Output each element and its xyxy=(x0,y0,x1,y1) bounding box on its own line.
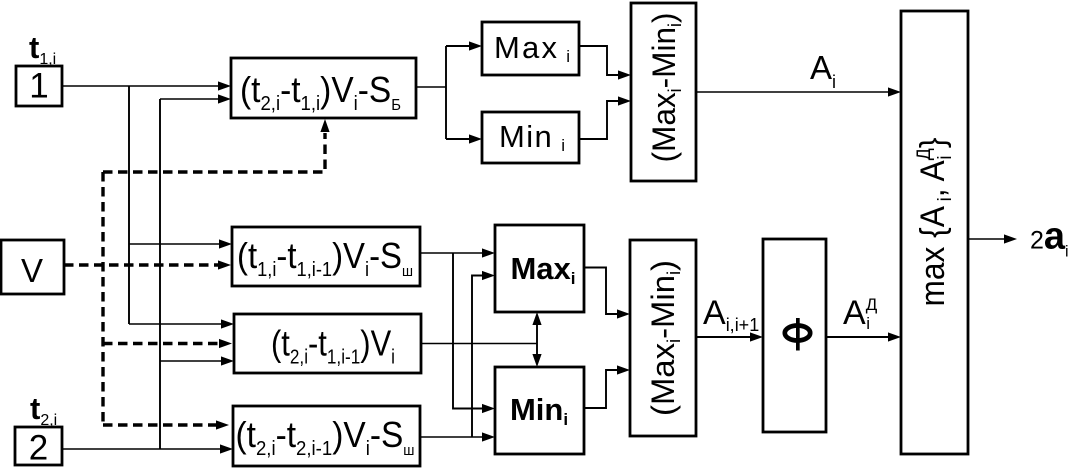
wire PHI to MAXF carrying AДi xyxy=(826,332,901,341)
block MinB : Min i (bottom) xyxy=(495,367,584,454)
double arrow between MaxB and MinB xyxy=(532,312,541,367)
block 2 : input t2,i xyxy=(15,427,62,468)
block F1 : (t2,i-t1,i)Vi-SB xyxy=(231,58,416,118)
block MMB : (Maxi-Mini) bottom xyxy=(630,240,696,436)
svg-text:(Maxi-Mini): (Maxi-Mini) xyxy=(646,13,685,163)
wire MinB to MMB xyxy=(584,365,630,408)
wire trunk vertical from node on 1-wire xyxy=(128,86,130,324)
svg-text:(Maxi-Mini): (Maxi-Mini) xyxy=(645,260,684,416)
wire MMT to MAXF carrying Ai xyxy=(696,87,901,96)
wire F4 to MinB input2 xyxy=(420,432,495,441)
block MAXF : max{Ai, AiД} xyxy=(901,11,968,454)
wire MinT to MMT xyxy=(579,96,631,139)
svg-text:Mini: Mini xyxy=(510,392,568,429)
block 1 : input t1,i xyxy=(16,66,62,106)
block MaxT : Max i (top) xyxy=(482,22,579,75)
dashed wire V output xyxy=(64,260,231,269)
block F4 : (t2,i-t2,i-1)Vi-Ssh xyxy=(233,406,420,466)
wire F4 branch to MaxB input2 xyxy=(472,271,495,437)
wire arrow into MinT xyxy=(446,134,482,143)
block MMT : (Maxi-Mini) top xyxy=(631,3,696,181)
block PHI : correction function xyxy=(763,239,826,432)
wire F2 branch to MinB input1 xyxy=(453,253,495,413)
wire arrow into MaxT xyxy=(446,41,482,50)
wire corner to F3 input1 xyxy=(129,319,234,328)
block MaxB : Max i (bottom) xyxy=(495,225,584,312)
wire MaxB to MMB xyxy=(584,268,630,319)
svg-text:max {A i, AДi}: max {A i, AДi} xyxy=(914,137,956,306)
wire MMB to PHI carrying Ai,i+1 xyxy=(696,332,763,341)
wire MaxT to MMT xyxy=(579,46,631,80)
wire F3 output to double arrow xyxy=(421,343,537,345)
block V : input speed xyxy=(1,240,64,294)
wire 2 to F4 input2 xyxy=(62,444,233,453)
svg-text:2: 2 xyxy=(29,429,48,468)
svg-text:V: V xyxy=(21,252,43,289)
wire F2 to MaxB input1 xyxy=(420,248,495,257)
block F2 : (t1,i-t1,i-1)Vi-Ssh xyxy=(232,227,420,286)
svg-text:Maxi: Maxi xyxy=(510,251,575,288)
block F3 : (t2,i-t1,i-1)Vi xyxy=(234,314,421,373)
wire branch to F3 input3 xyxy=(160,356,234,365)
wire F1 output split xyxy=(416,46,446,139)
dashed branch top into F1 bottom xyxy=(103,119,330,172)
block MinT : Min i (top) xyxy=(482,112,579,163)
dashed branch to F3 input2 xyxy=(103,339,232,348)
wire MAXF output 2ai xyxy=(968,234,1017,243)
dashed trunk vertical from V xyxy=(101,172,104,425)
wire branch to F2 input1 xyxy=(129,239,232,248)
wire 2 branch up to F1 input2 xyxy=(160,94,231,449)
dashed branch to F4 input1 xyxy=(103,420,229,429)
wire 1 to F1 input1 xyxy=(62,81,231,90)
svg-text:1: 1 xyxy=(29,67,48,106)
